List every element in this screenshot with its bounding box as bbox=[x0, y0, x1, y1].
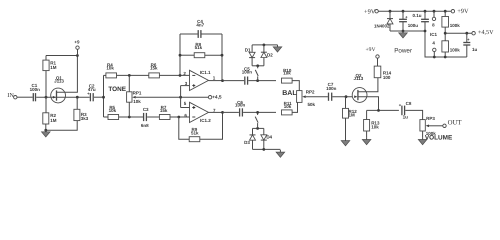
svg-text:IC1.1: IC1.1 bbox=[200, 70, 211, 75]
svg-text:1u: 1u bbox=[472, 47, 478, 52]
svg-text:3k3: 3k3 bbox=[81, 116, 89, 121]
svg-text:C8: C8 bbox=[406, 101, 412, 106]
svg-text:51k: 51k bbox=[195, 45, 203, 50]
svg-text:10k: 10k bbox=[133, 99, 141, 104]
svg-text:J113: J113 bbox=[354, 76, 364, 81]
svg-text:100n: 100n bbox=[30, 87, 41, 92]
svg-text:100n: 100n bbox=[235, 102, 246, 107]
svg-text:C3: C3 bbox=[143, 107, 149, 112]
svg-text:IC1: IC1 bbox=[430, 32, 438, 37]
svg-text:RP1: RP1 bbox=[133, 90, 142, 95]
svg-text:0.1u: 0.1u bbox=[412, 13, 421, 18]
svg-text:4n7: 4n7 bbox=[196, 23, 204, 28]
svg-text:10k: 10k bbox=[106, 65, 114, 70]
svg-text:+9V: +9V bbox=[457, 8, 469, 15]
svg-text:BAL: BAL bbox=[282, 90, 297, 97]
svg-text:+4,5: +4,5 bbox=[212, 95, 222, 101]
svg-text:D2: D2 bbox=[267, 53, 273, 58]
svg-text:RP2: RP2 bbox=[306, 89, 315, 94]
svg-text:10k: 10k bbox=[284, 104, 292, 109]
svg-text:15k: 15k bbox=[150, 65, 158, 70]
svg-text:+9V: +9V bbox=[366, 47, 376, 53]
svg-text:6n8: 6n8 bbox=[141, 123, 149, 128]
svg-text:1M: 1M bbox=[50, 118, 57, 123]
svg-text:VOLUME: VOLUME bbox=[425, 134, 453, 141]
svg-text:1M: 1M bbox=[349, 113, 356, 118]
svg-text:1u: 1u bbox=[403, 114, 409, 119]
svg-text:100: 100 bbox=[383, 75, 391, 80]
svg-text:OUT: OUT bbox=[448, 120, 463, 127]
svg-text:+9V: +9V bbox=[364, 9, 376, 16]
svg-text:50k: 50k bbox=[308, 102, 316, 107]
svg-text:100k: 100k bbox=[450, 48, 461, 53]
svg-text:100u: 100u bbox=[408, 23, 419, 28]
svg-text:D1: D1 bbox=[245, 47, 251, 52]
svg-text:100k: 100k bbox=[450, 23, 461, 28]
svg-text:+4,5V: +4,5V bbox=[478, 29, 494, 36]
svg-text:100n: 100n bbox=[326, 86, 337, 91]
svg-text:TONE: TONE bbox=[108, 86, 126, 93]
svg-text:10k: 10k bbox=[371, 125, 379, 130]
svg-text:RP3: RP3 bbox=[426, 116, 435, 121]
svg-text:51k: 51k bbox=[191, 130, 199, 135]
svg-text:1N4002: 1N4002 bbox=[374, 23, 390, 28]
svg-text:J113: J113 bbox=[54, 79, 64, 84]
svg-text:D3: D3 bbox=[244, 140, 250, 145]
svg-text:1M: 1M bbox=[50, 65, 57, 70]
svg-text:D4: D4 bbox=[266, 134, 272, 139]
svg-text:15k: 15k bbox=[160, 108, 168, 113]
svg-text:Power: Power bbox=[394, 47, 412, 54]
svg-text:+9: +9 bbox=[74, 40, 80, 45]
svg-text:10k: 10k bbox=[283, 71, 291, 76]
svg-text:100n: 100n bbox=[242, 70, 253, 75]
svg-text:10k: 10k bbox=[109, 108, 117, 113]
svg-text:IC1.2: IC1.2 bbox=[200, 118, 211, 123]
